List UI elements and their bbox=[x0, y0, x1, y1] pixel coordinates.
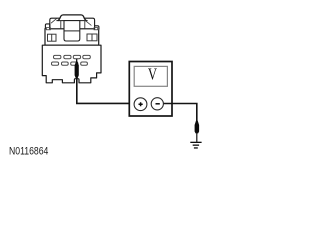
connector cap: right block diagonal bbox=[85, 20, 91, 25]
connector cap: hump bbox=[58, 15, 87, 21]
test probe (positive lead) bbox=[75, 60, 79, 78]
ground symbol bar 2 bbox=[193, 145, 199, 146]
connector cap: far-left tab bbox=[45, 24, 49, 30]
connector lower body with castellated bottom bbox=[42, 45, 101, 83]
plus sign bbox=[139, 102, 143, 106]
wire ground probe to ground bbox=[196, 133, 198, 142]
ground probe (negative lead) bbox=[195, 121, 200, 134]
pin row 2 bbox=[52, 62, 88, 65]
svg-text:N0116864: N0116864 bbox=[9, 146, 49, 158]
connector shell: left tab foot bbox=[46, 28, 50, 30]
connector cap: left block bbox=[50, 18, 60, 29]
wire minus to ground probe bbox=[163, 104, 196, 122]
pin row 1 bbox=[54, 55, 91, 58]
connector cap: hump base line bbox=[56, 20, 87, 22]
connector cap: inner vertical right bbox=[84, 21, 86, 29]
voltmeter display bbox=[134, 66, 167, 86]
ground symbol bar 3 bbox=[194, 147, 198, 148]
svg-text:V: V bbox=[148, 66, 157, 84]
connector cap: inner vertical left bbox=[60, 21, 62, 29]
connector cap: right block bbox=[84, 18, 95, 26]
plus terminal circle bbox=[134, 98, 147, 111]
minus terminal circle bbox=[151, 98, 163, 110]
ground symbol bar 1 bbox=[190, 142, 201, 143]
connector shell: right latch squares bbox=[87, 34, 97, 41]
minus sign bbox=[156, 103, 160, 105]
connector shell upper bbox=[45, 29, 99, 45]
connector cap: left block diagonal bbox=[51, 19, 57, 24]
connector shell: right tab foot bbox=[94, 28, 98, 30]
connector shell: left latch squares bbox=[48, 34, 57, 41]
connector shell: center key rect bbox=[64, 21, 80, 41]
connector cap: far-right tab bbox=[95, 26, 99, 30]
wire probe to voltmeter plus bbox=[77, 78, 136, 103]
voltmeter box bbox=[129, 62, 172, 117]
wire from pin to probe bbox=[76, 59, 78, 62]
